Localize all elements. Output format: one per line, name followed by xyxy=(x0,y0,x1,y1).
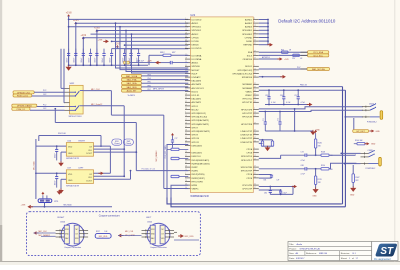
svg-text:WM8994ECS/R: WM8994ECS/R xyxy=(190,194,208,198)
svg-text:20: 20 xyxy=(185,151,187,153)
wire spk pair bottom1 xyxy=(167,198,341,204)
svg-text:31: 31 xyxy=(185,126,187,128)
svg-text:SAI1_FSA: SAI1_FSA xyxy=(127,79,137,82)
svg-text:REFGND: REFGND xyxy=(243,45,252,47)
wire supply xyxy=(97,30,188,32)
svg-text:AFTMCLK: AFTMCLK xyxy=(262,56,271,59)
svg-text:VDD: VDD xyxy=(68,147,73,149)
svg-text:SPKVDD: SPKVDD xyxy=(192,66,201,68)
svg-text:38: 38 xyxy=(185,130,187,132)
svg-text:SCLK: SCLK xyxy=(247,55,253,57)
ground U24 xyxy=(58,163,64,167)
wire out pair v1 xyxy=(342,87,344,204)
svg-text:LINEOUT2P: LINEOUT2P xyxy=(241,138,253,140)
svg-text:SPKGND2: SPKGND2 xyxy=(242,34,253,36)
wire cpca xyxy=(259,174,272,176)
svg-text:MCLK1: MCLK1 xyxy=(245,66,253,68)
resistor R57 xyxy=(293,54,300,56)
svg-text:SW2: SW2 xyxy=(70,83,76,85)
net flag I2C1_SCL xyxy=(308,54,329,57)
svg-text:HPOUT1FB: HPOUT1FB xyxy=(241,109,253,111)
svg-text:GND: GND xyxy=(68,153,73,155)
svg-text:Audio_INT: Audio_INT xyxy=(127,90,138,93)
svg-text:22: 22 xyxy=(254,32,256,34)
wire spk left2 xyxy=(171,185,188,197)
power +1V8 xyxy=(67,14,70,16)
svg-text:HPOUT2FB: HPOUT2FB xyxy=(241,124,253,126)
svg-text:GPIO3(BCLK2): GPIO3(BCLK2) xyxy=(192,113,207,115)
wire sw out clk xyxy=(83,90,111,92)
wire cpvoutp xyxy=(259,189,281,191)
svg-text:28: 28 xyxy=(185,94,187,96)
page right edge xyxy=(394,0,396,261)
svg-text:.augmented: .augmented xyxy=(378,258,391,261)
svg-text:SPKGND1: SPKGND1 xyxy=(242,30,253,32)
svg-text:IN1RP: IN1RP xyxy=(192,167,199,169)
wire cap bottom rail xyxy=(69,64,148,66)
svg-text:48: 48 xyxy=(185,166,187,168)
wire hp caps gnd xyxy=(265,130,313,132)
sw closed note a xyxy=(112,139,122,145)
svg-text:HPFB: HPFB xyxy=(192,185,198,187)
junction xyxy=(82,64,84,66)
svg-text:PE6: PE6 xyxy=(148,85,151,87)
svg-text:CPCA: CPCA xyxy=(246,173,252,176)
svg-text:DGND: DGND xyxy=(246,41,253,43)
net flag SAI1_SDA xyxy=(122,82,142,85)
svg-text:LIN/DAT2: LIN/DAT2 xyxy=(192,76,202,79)
wire micbias1 xyxy=(259,86,343,88)
svg-text:STM32F4x9I8-EV-A1: STM32F4x9I8-EV-A1 xyxy=(300,248,321,251)
svg-text:LDO2VDD: LDO2VDD xyxy=(192,48,202,50)
capacitor C62 xyxy=(82,49,84,54)
svg-text:22: 22 xyxy=(254,76,256,78)
svg-text:DOUT: DOUT xyxy=(86,180,92,182)
svg-text:IN2RN(DMICDAT2): IN2RN(DMICDAT2) xyxy=(192,162,210,165)
svg-text:GND: GND xyxy=(68,180,73,182)
svg-text:IN2LN(DMICDAT1): IN2LN(DMICDAT1) xyxy=(192,159,210,162)
svg-text:Revision:: Revision: xyxy=(341,253,350,255)
svg-text:HP_DET: HP_DET xyxy=(357,131,366,133)
svg-text:CLK: CLK xyxy=(88,150,93,152)
svg-text:LEFT: LEFT xyxy=(146,217,152,219)
page bottom edge xyxy=(0,261,400,265)
wire c1 xyxy=(34,232,56,234)
svg-text:ST: ST xyxy=(380,246,394,257)
svg-text:15: 15 xyxy=(185,25,187,27)
capacitor C97 xyxy=(297,90,299,97)
svg-text:57: 57 xyxy=(185,47,187,49)
svg-text:Closed: Closed xyxy=(114,143,119,145)
svg-text:3: 3 xyxy=(185,112,186,114)
svg-text:32: 32 xyxy=(254,40,256,42)
capacitor C65 xyxy=(103,49,105,54)
svg-text:SPKMODE: SPKMODE xyxy=(242,77,253,79)
capacitor C69 xyxy=(138,49,140,54)
wire r147 gnd xyxy=(352,182,354,187)
svg-text:GPIO5(ADCLRCLK2): GPIO5(ADCLRCLK2) xyxy=(232,72,252,75)
power arrow +1V8 left xyxy=(27,205,30,209)
svg-text:32: 32 xyxy=(254,83,256,85)
cap top rail group2 xyxy=(112,48,139,50)
power arrow cifmode xyxy=(280,57,283,60)
wire U27 dout xyxy=(94,178,131,180)
svg-text:GPIO5(DACDAT2): GPIO5(DACDAT2) xyxy=(192,119,210,122)
svg-text:52: 52 xyxy=(254,97,256,99)
wire scl xyxy=(259,54,308,56)
svg-text:37: 37 xyxy=(254,130,256,132)
wire flag3 xyxy=(37,106,65,108)
svg-text:DMICCLK: DMICCLK xyxy=(192,156,202,158)
svg-text:GND: GND xyxy=(371,144,376,146)
svg-text:17: 17 xyxy=(254,72,256,74)
svg-text:Reference:: Reference: xyxy=(306,252,317,255)
svg-text:12: 12 xyxy=(254,25,256,27)
svg-text:HPOUT2FB: HPOUT2FB xyxy=(192,181,204,183)
svg-text:41: 41 xyxy=(185,162,187,164)
svg-text:PG7: PG7 xyxy=(297,67,300,69)
svg-text:47: 47 xyxy=(254,137,256,139)
wire supply xyxy=(76,22,189,24)
ferrite bead FB12 xyxy=(149,54,163,56)
power +2V5 cap bank xyxy=(116,45,119,47)
svg-text:PE5: PE5 xyxy=(148,82,151,84)
wire hpline2 xyxy=(259,168,305,170)
svg-text:IN1LP: IN1LP xyxy=(192,73,198,75)
svg-text:37: 37 xyxy=(254,173,256,175)
wire flag1 xyxy=(34,91,64,93)
power arrow r144 gnd xyxy=(367,142,370,145)
svg-text:BCLK1: BCLK1 xyxy=(192,91,199,93)
power arrow +2V8 feed xyxy=(106,40,109,44)
microphone U24 xyxy=(66,143,93,157)
svg-text:52: 52 xyxy=(254,140,256,142)
svg-text:42: 42 xyxy=(185,101,187,103)
svg-text:ADCDAT1: ADCDAT1 xyxy=(192,101,202,104)
svg-text:VREFC: VREFC xyxy=(245,95,253,97)
svg-text:MICBIAS2: MICBIAS2 xyxy=(242,87,253,90)
power +1V2 xyxy=(82,37,85,39)
svg-text:R147: R147 xyxy=(355,177,359,179)
wire hp div xyxy=(315,148,317,155)
svg-text:Default I2C Address:0011010: Default I2C Address:0011010 xyxy=(278,19,336,24)
svg-text:47: 47 xyxy=(254,50,256,52)
svg-text:C84: C84 xyxy=(264,192,267,194)
svg-text:PE7: PE7 xyxy=(148,89,151,91)
svg-text:RIGHT: RIGHT xyxy=(79,141,86,143)
svg-text:1uF: 1uF xyxy=(277,180,280,182)
svg-text:SPKOUTRN: SPKOUTRN xyxy=(241,167,253,169)
svg-text:7: 7 xyxy=(254,22,255,24)
jumper JP11 xyxy=(38,199,52,203)
wire jack sleeve xyxy=(345,116,363,118)
ground lineout xyxy=(265,147,271,151)
svg-text:GPIO10: GPIO10 xyxy=(192,138,200,140)
resistor R150 xyxy=(321,168,329,170)
svg-text:10: 10 xyxy=(185,115,187,117)
svg-text:6/9/2017: 6/9/2017 xyxy=(296,258,305,260)
wire U24 dout xyxy=(94,151,137,153)
svg-text:PC2: PC2 xyxy=(43,90,46,92)
svg-text:+1V2: +1V2 xyxy=(80,34,86,37)
svg-text:100nF: 100nF xyxy=(102,58,104,63)
svg-text:SPKOUTLN: SPKOUTLN xyxy=(241,156,253,158)
svg-text:I2C1_SCL: I2C1_SCL xyxy=(313,55,323,57)
wire cp gnd rail xyxy=(270,193,293,195)
svg-text:LRCLK1: LRCLK1 xyxy=(192,95,201,97)
resistor R112 xyxy=(271,141,273,146)
svg-text:47: 47 xyxy=(254,94,256,96)
wire flag2 xyxy=(32,95,65,97)
wire hpline1b xyxy=(329,154,355,156)
svg-text:DACDAT1: DACDAT1 xyxy=(192,98,202,101)
net flag DFSDM_DATA1 xyxy=(12,104,37,107)
svg-text:CLK: CLK xyxy=(88,177,93,179)
svg-text:GPIO7: GPIO7 xyxy=(192,127,199,129)
svg-text:29: 29 xyxy=(185,32,187,34)
svg-text:LDO1VDD: LDO1VDD xyxy=(192,19,202,21)
svg-text:C77: C77 xyxy=(175,138,178,140)
svg-text:100nF: 100nF xyxy=(54,153,56,158)
svg-text:Date:: Date: xyxy=(289,257,295,260)
capacitor C61 xyxy=(75,49,77,54)
svg-text:PDM_MIC_DATA: PDM_MIC_DATA xyxy=(164,145,167,159)
svg-text:59: 59 xyxy=(185,140,187,142)
sw closed note b xyxy=(123,139,133,145)
svg-text:LINEOUT1P: LINEOUT1P xyxy=(241,131,253,133)
net flag Audio_INT xyxy=(122,89,142,92)
svg-text:CIFMODE: CIFMODE xyxy=(243,59,253,61)
svg-text:57: 57 xyxy=(254,58,256,60)
svg-text:R150: R150 xyxy=(321,165,325,167)
svg-text:SPKVDD2: SPKVDD2 xyxy=(192,30,203,32)
resistor R146 xyxy=(314,139,316,148)
wire spk pair bottom2 xyxy=(171,198,345,207)
power arrow mic clk left xyxy=(33,231,36,235)
power arrow AGND xyxy=(270,43,273,47)
title block xyxy=(288,242,372,261)
svg-text:DBVDD: DBVDD xyxy=(192,45,200,47)
ground r147 xyxy=(350,188,356,192)
svg-text:2: 2 xyxy=(185,173,186,175)
svg-text:17: 17 xyxy=(254,158,256,160)
svg-text:43: 43 xyxy=(185,40,187,42)
ground jp area xyxy=(57,191,62,195)
svg-text:IN1RN: IN1RN xyxy=(192,171,199,173)
wire drop2 xyxy=(120,27,188,70)
svg-text:35: 35 xyxy=(185,97,187,99)
svg-text:27: 27 xyxy=(254,36,256,38)
svg-text:GPIO6(ADCDAT2): GPIO6(ADCDAT2) xyxy=(192,123,210,126)
wire hpline2b xyxy=(329,163,356,169)
power +1V8 jp xyxy=(41,192,44,194)
svg-text:7: 7 xyxy=(254,151,255,153)
net flag SAI1_SDB xyxy=(122,85,142,88)
svg-text:100nF: 100nF xyxy=(66,58,68,63)
svg-text:SAI1_SDA: SAI1_SDA xyxy=(127,82,138,85)
svg-text:1: 1 xyxy=(185,18,186,20)
junction xyxy=(124,64,126,66)
svg-text:Coupon Connection: Coupon Connection xyxy=(64,246,81,249)
capacitor C68 xyxy=(130,49,132,54)
svg-text:8: 8 xyxy=(185,22,186,24)
net flag DFSDM_CKO xyxy=(13,91,34,94)
net flag I2C1_SDA xyxy=(308,51,329,54)
svg-text:PDM_D1: PDM_D1 xyxy=(17,109,26,111)
svg-text:C95: C95 xyxy=(265,95,268,97)
svg-text:C73: C73 xyxy=(301,152,304,154)
ST logo xyxy=(372,242,398,261)
svg-text:+1V8: +1V8 xyxy=(66,12,72,15)
svg-text:AGND1: AGND1 xyxy=(245,18,253,21)
svg-text:57: 57 xyxy=(254,187,256,189)
svg-text:HPOUT1L: HPOUT1L xyxy=(243,99,253,101)
svg-text:+2V8: +2V8 xyxy=(147,60,151,62)
svg-text:C96: C96 xyxy=(280,95,283,97)
svg-text:HPOUT2N: HPOUT2N xyxy=(242,117,252,119)
wire drop3 xyxy=(126,31,188,72)
wire select drop b xyxy=(63,49,65,103)
wire sda xyxy=(259,51,308,53)
svg-text:C71: C71 xyxy=(263,118,265,121)
connector CN26 xyxy=(61,223,84,246)
window left edge xyxy=(0,0,2,265)
svg-text:To MFX: To MFX xyxy=(127,95,135,97)
wire r170 gnd xyxy=(315,184,317,189)
resistor R147 xyxy=(352,174,354,183)
wire mic pwr xyxy=(31,206,112,208)
wire c2 out xyxy=(174,239,199,241)
wire micbias gnd rail xyxy=(265,104,308,106)
wire agnd bundle xyxy=(259,19,268,21)
svg-text:24: 24 xyxy=(185,122,187,124)
svg-text:IN2LP(VRXN): IN2LP(VRXN) xyxy=(192,174,205,176)
svg-text:GPIO1: GPIO1 xyxy=(192,106,199,108)
resistor R170 xyxy=(314,176,316,184)
svg-text:R217: R217 xyxy=(96,231,100,233)
wire U24 lr xyxy=(94,145,111,147)
svg-text:U22: U22 xyxy=(190,13,195,17)
svg-text:C68: C68 xyxy=(301,165,304,167)
wire c2 xyxy=(118,235,142,237)
svg-text:SPKVDD1: SPKVDD1 xyxy=(192,27,203,29)
svg-text:ADCLRCLK1: ADCLRCLK1 xyxy=(192,87,205,90)
svg-text:DCVDD: DCVDD xyxy=(192,41,200,43)
svg-text:MP34DT01TR: MP34DT01TR xyxy=(66,185,79,187)
svg-text:100nF: 100nF xyxy=(109,58,111,63)
svg-text:MIC_VDD: MIC_VDD xyxy=(99,236,108,238)
svg-text:C97: C97 xyxy=(294,95,297,97)
svg-text:CK2: CK2 xyxy=(43,94,46,96)
wire +1V2 vertical xyxy=(82,38,84,65)
capacitor C72 xyxy=(279,112,281,123)
wire supply xyxy=(125,44,189,46)
svg-text:18: 18 xyxy=(185,58,187,60)
svg-text:VDD: VDD xyxy=(68,174,73,176)
power arrow cp xyxy=(294,185,297,188)
svg-text:AVDD1: AVDD1 xyxy=(192,22,200,25)
svg-text:R144 30K: R144 30K xyxy=(355,140,363,142)
wire supply xyxy=(112,40,189,42)
svg-text:SAI1_MCLKA: SAI1_MCLKA xyxy=(312,68,325,71)
capacitor C71 xyxy=(264,112,266,123)
wire cifmode xyxy=(259,58,279,60)
wire supply xyxy=(69,18,189,20)
svg-text:MB1240: MB1240 xyxy=(319,253,328,255)
svg-text:MIC_CLK: MIC_CLK xyxy=(125,231,134,233)
junction xyxy=(111,64,113,66)
wire mic vdd rail xyxy=(35,139,37,199)
junction xyxy=(68,26,70,28)
wire supply xyxy=(91,33,189,35)
junction xyxy=(90,64,92,66)
wire lineout gnd xyxy=(263,145,273,147)
junction xyxy=(130,64,132,66)
svg-text:POM2538-2: POM2538-2 xyxy=(366,168,376,170)
resistor R133 xyxy=(171,175,179,177)
connector CN25 xyxy=(147,223,170,246)
capacitor C88 xyxy=(159,62,171,64)
capacitor C85 xyxy=(280,190,282,191)
wire dmic route xyxy=(135,123,137,171)
junction xyxy=(96,64,98,66)
svg-text:2K2: 2K2 xyxy=(355,180,358,182)
svg-text:PDM_CLK1: PDM_CLK1 xyxy=(17,96,29,98)
capacitor C64 xyxy=(96,49,98,54)
wire sw out dat xyxy=(83,105,124,107)
wire spk left1 xyxy=(167,145,188,198)
svg-text:27: 27 xyxy=(185,155,187,157)
svg-text:R146: R146 xyxy=(318,142,322,144)
capacitor C84 xyxy=(269,187,271,191)
wire supply xyxy=(83,37,188,39)
svg-text:52: 52 xyxy=(254,54,256,56)
wire U27 vdd xyxy=(36,172,66,174)
wire U27 gnd xyxy=(61,178,66,180)
svg-text:32: 32 xyxy=(254,169,256,171)
power arrow micbias xyxy=(309,103,312,107)
ground U27 xyxy=(58,190,64,194)
svg-text:GPIO2(MCLK2): GPIO2(MCLK2) xyxy=(238,70,253,72)
svg-text:12: 12 xyxy=(254,112,256,114)
wire +2V8 vertical xyxy=(96,31,98,65)
svg-text:GPIO8(DMICDAT2): GPIO8(DMICDAT2) xyxy=(192,130,211,133)
svg-text:MCLK2: MCLK2 xyxy=(192,109,200,111)
svg-text:CPCB: CPCB xyxy=(246,178,252,180)
svg-text:GND: GND xyxy=(350,194,355,196)
svg-text:CPVDD: CPVDD xyxy=(192,37,200,39)
svg-text:C81: C81 xyxy=(263,180,266,182)
capacitor C95 xyxy=(268,90,270,97)
svg-text:LDO1ENA: LDO1ENA xyxy=(192,54,202,57)
svg-text:MICBIAS1: MICBIAS1 xyxy=(242,83,253,86)
svg-text:HPOUT1R: HPOUT1R xyxy=(242,102,252,104)
svg-text:4.7uF: 4.7uF xyxy=(271,102,275,104)
wire mic clk rail xyxy=(39,135,101,137)
svg-text:100nF: 100nF xyxy=(81,58,83,63)
junction xyxy=(75,64,77,66)
svg-text:R57: R57 xyxy=(292,58,295,60)
svg-text:SN74LVC2G53: SN74LVC2G53 xyxy=(69,116,82,118)
svg-text:49: 49 xyxy=(185,104,187,106)
wire supply xyxy=(125,48,189,50)
junction xyxy=(103,64,105,66)
wire U24 gnd xyxy=(61,151,66,153)
svg-text:GPIO9: GPIO9 xyxy=(192,135,199,137)
svg-text:HPOUT2P: HPOUT2P xyxy=(242,113,252,115)
svg-text:12: 12 xyxy=(254,155,256,157)
svg-text:CPGND: CPGND xyxy=(245,37,253,39)
